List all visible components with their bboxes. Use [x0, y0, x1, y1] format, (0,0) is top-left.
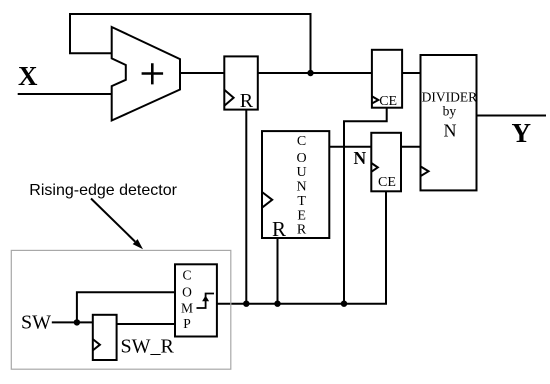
- wire counter output N: [329, 146, 371, 148]
- register SW_R clock chevron: [93, 339, 100, 350]
- node junction on main bus: [307, 70, 313, 76]
- svg-text:Y: Y: [512, 118, 532, 148]
- divider U3 clock chevron: [421, 166, 429, 176]
- svg-text:SW: SW: [21, 312, 51, 334]
- wire feedback loop: [70, 14, 311, 73]
- counter U2 clock chevron: [262, 192, 272, 208]
- wire SW input: [52, 321, 93, 323]
- wire enable bus bottom: [217, 191, 386, 303]
- node junction bus R1: [243, 301, 249, 307]
- flipflop CE2 box: [371, 133, 401, 192]
- flipflop CE2 clock chevron: [371, 163, 378, 172]
- svg-text:X: X: [18, 61, 38, 91]
- svg-text:N: N: [297, 180, 307, 195]
- comparator U4 box: [175, 264, 217, 336]
- svg-text:R: R: [272, 217, 286, 241]
- wire SW branch to COMP: [77, 292, 175, 322]
- svg-text:Rising-edge detector: Rising-edge detector: [29, 182, 177, 199]
- svg-text:SW_R: SW_R: [121, 336, 175, 358]
- label COMP vertical: [181, 268, 193, 332]
- register R1 clock chevron: [224, 90, 233, 106]
- adder U1 plus symbol: [142, 63, 164, 84]
- comparator rising-edge arrowhead: [202, 296, 209, 302]
- svg-text:DIVIDER: DIVIDER: [422, 89, 478, 104]
- svg-text:R: R: [297, 223, 307, 238]
- flipflop CE1 clock chevron: [372, 96, 378, 103]
- node junction bus CE1 enable: [341, 301, 347, 307]
- register R1 box: [224, 56, 257, 109]
- annotation arrow: [91, 199, 135, 242]
- svg-text:O: O: [297, 151, 307, 166]
- detector outline box: [11, 250, 231, 369]
- svg-text:N: N: [444, 121, 457, 141]
- svg-text:C: C: [297, 134, 306, 149]
- register SW_R box: [93, 315, 117, 360]
- node junction bus counter reset: [274, 301, 280, 307]
- wire SW_R output: [117, 323, 175, 325]
- wire Y output: [477, 115, 547, 117]
- wire CE1 output: [402, 72, 420, 74]
- divider U3 box: [421, 55, 477, 190]
- wire adder output: [180, 72, 224, 74]
- wire R1 output bus: [258, 72, 372, 74]
- svg-text:by: by: [443, 104, 457, 119]
- wire CE1 enable: [344, 108, 387, 304]
- svg-text:CE: CE: [379, 94, 397, 109]
- svg-text:U: U: [297, 165, 307, 180]
- svg-text:T: T: [297, 194, 306, 209]
- label COUNTER vertical: [297, 134, 307, 238]
- svg-text:C: C: [182, 268, 191, 283]
- wire R1 feedback down: [245, 110, 247, 304]
- node junction SW: [74, 319, 80, 325]
- wire X input: [18, 93, 112, 95]
- comparator rising-edge symbol: [197, 294, 215, 309]
- svg-text:O: O: [182, 285, 192, 300]
- svg-text:M: M: [181, 300, 193, 315]
- counter U2 box: [262, 131, 329, 238]
- svg-text:P: P: [183, 316, 191, 331]
- svg-text:N: N: [354, 148, 367, 168]
- wire CE2 output: [401, 146, 421, 148]
- svg-text:R: R: [240, 90, 254, 112]
- flipflop CE1 box: [372, 50, 402, 108]
- svg-text:CE: CE: [378, 175, 396, 190]
- svg-text:E: E: [297, 209, 306, 224]
- adder U1 body: [112, 27, 180, 121]
- wire counter reset down: [277, 238, 279, 304]
